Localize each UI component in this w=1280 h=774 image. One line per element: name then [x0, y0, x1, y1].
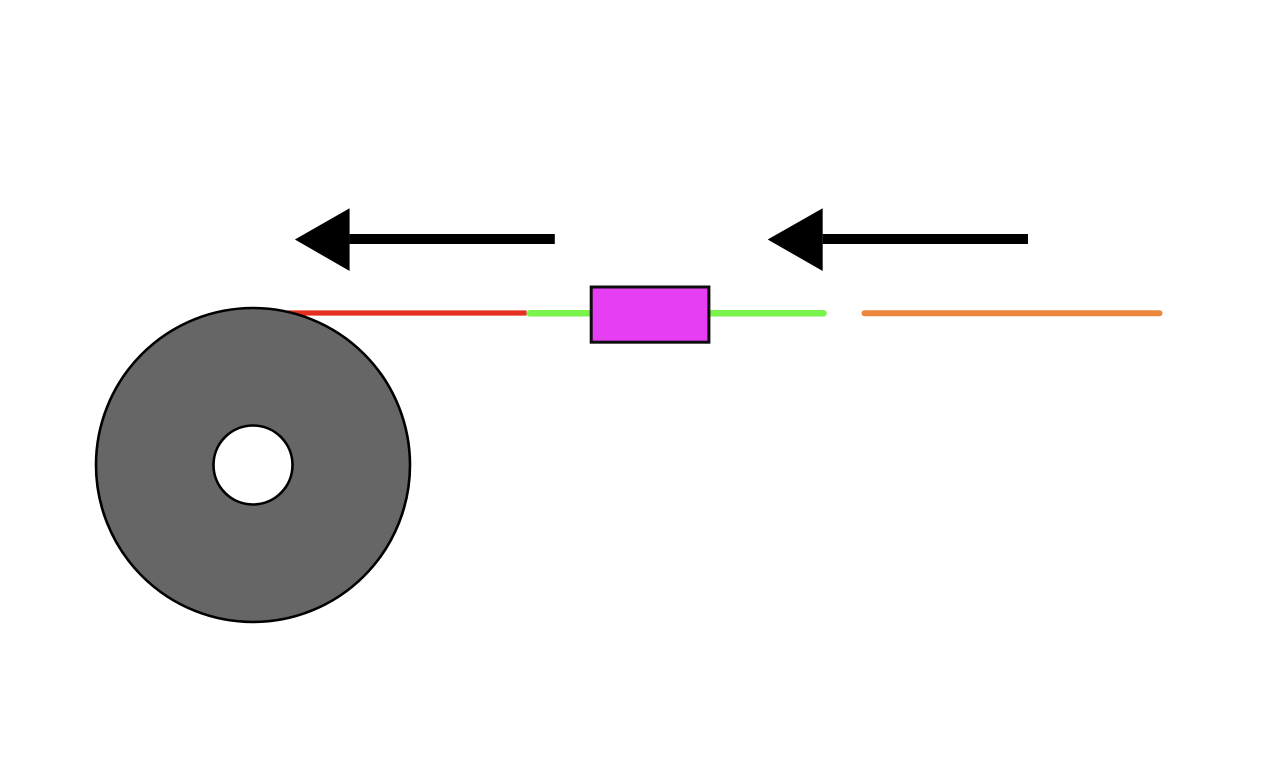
green filament segment (through extruder): [530, 310, 824, 317]
left black arrow (pointing left): [295, 208, 555, 271]
right black arrow (pointing left): [768, 208, 1028, 271]
spool (gray donut outer disc): [96, 308, 410, 622]
extruder block (magenta rectangle): [591, 287, 709, 342]
red filament segment (from spool to extruder): [260, 310, 527, 315]
spool hub hole: [214, 426, 293, 505]
orange filament segment (right): [865, 310, 1160, 316]
